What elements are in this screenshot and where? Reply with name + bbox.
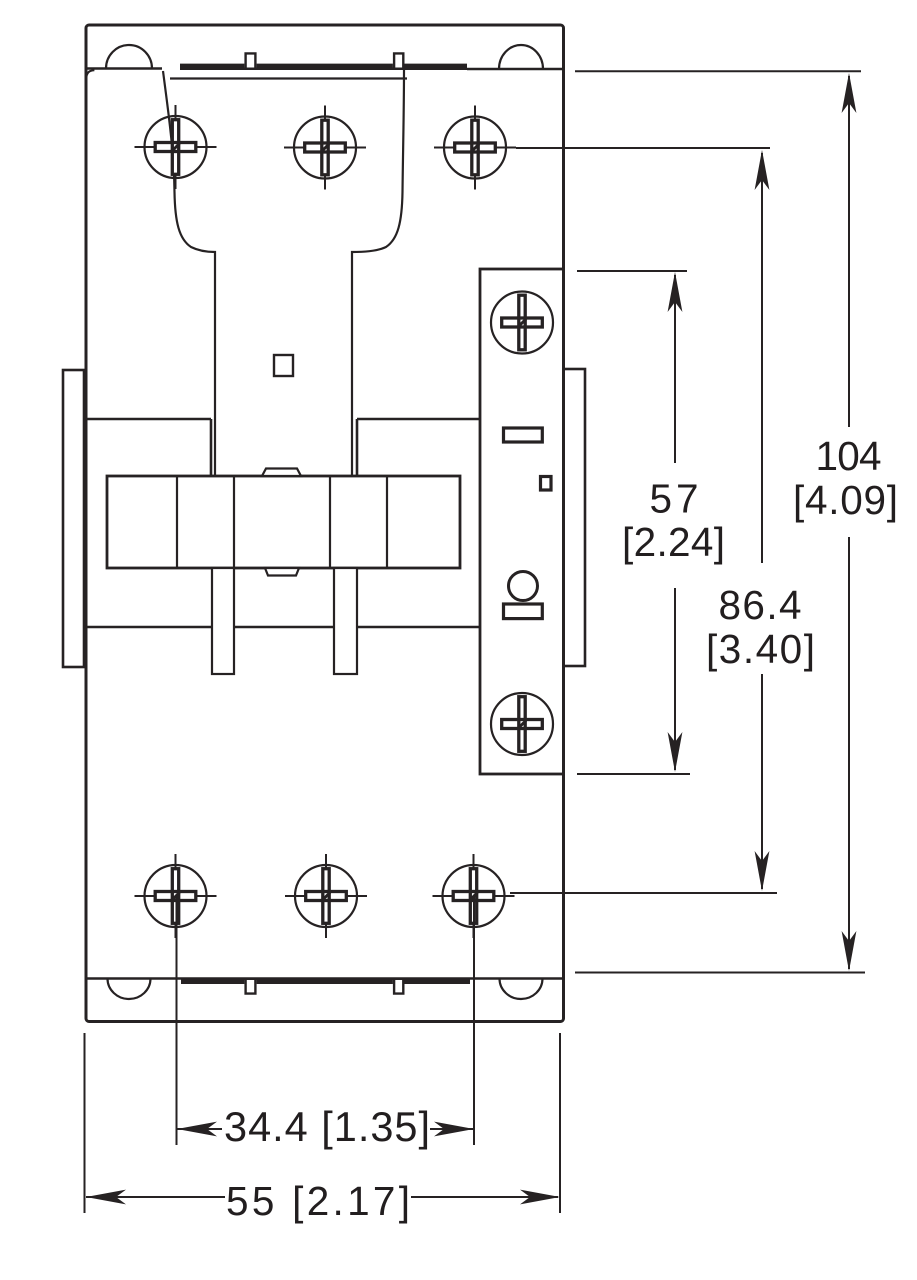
svg-text:55 [2.17]: 55 [2.17] [226, 1178, 410, 1224]
svg-text:104: 104 [816, 433, 882, 479]
svg-text:[4.09]: [4.09] [793, 477, 898, 523]
svg-text:34.4 [1.35]: 34.4 [1.35] [224, 1103, 430, 1150]
svg-text:[3.40]: [3.40] [706, 626, 815, 672]
svg-text:86.4: 86.4 [719, 582, 802, 628]
svg-text:[2.24]: [2.24] [622, 519, 725, 565]
